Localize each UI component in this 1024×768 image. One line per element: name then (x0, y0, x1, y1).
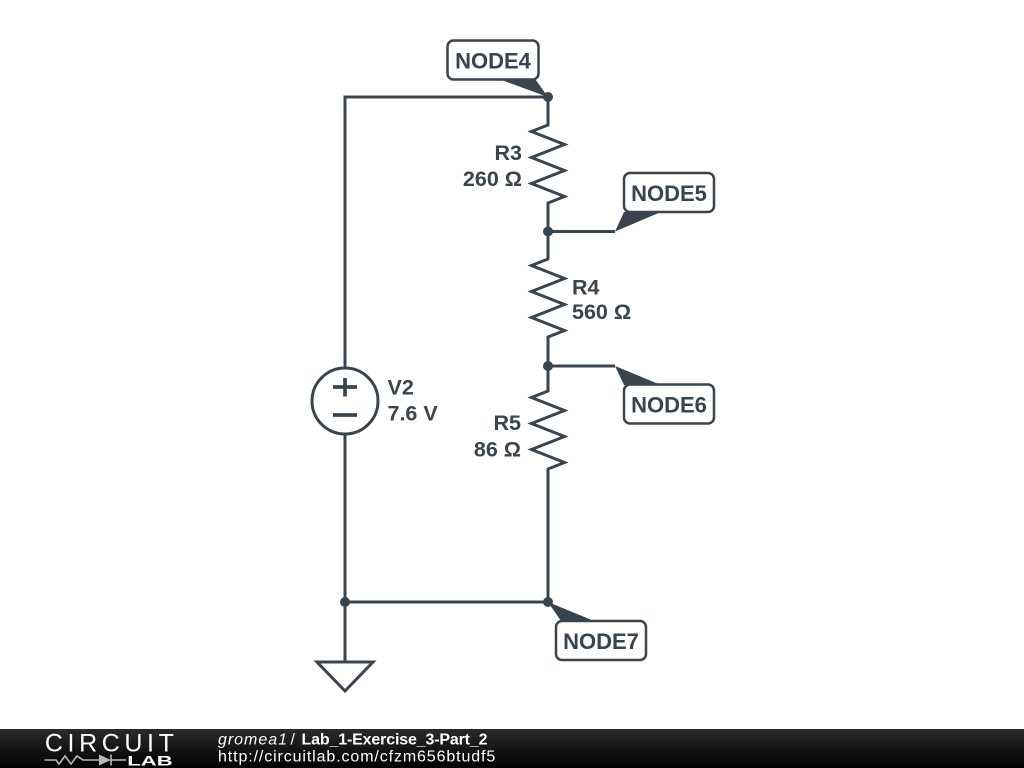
svg-text:http://circuitlab.com/cfzm656b: http://circuitlab.com/cfzm656btudf5 (218, 749, 495, 766)
svg-text:86 Ω: 86 Ω (474, 437, 521, 461)
svg-text:560 Ω: 560 Ω (572, 300, 631, 324)
svg-text:V2: V2 (388, 376, 414, 400)
svg-text:R3: R3 (495, 141, 523, 165)
svg-text:R5: R5 (494, 411, 522, 435)
svg-text:/: / (291, 732, 296, 749)
svg-text:R4: R4 (572, 276, 600, 300)
svg-text:LAB: LAB (127, 752, 172, 768)
svg-text:gromea1: gromea1 (218, 732, 287, 749)
svg-text:NODE6: NODE6 (631, 393, 707, 418)
svg-text:260 Ω: 260 Ω (463, 167, 522, 191)
svg-text:Lab_1-Exercise_3-Part_2: Lab_1-Exercise_3-Part_2 (302, 732, 488, 749)
svg-text:7.6 V: 7.6 V (388, 401, 439, 425)
svg-text:NODE7: NODE7 (563, 629, 639, 654)
svg-text:NODE4: NODE4 (455, 49, 532, 74)
svg-text:NODE5: NODE5 (631, 181, 707, 206)
